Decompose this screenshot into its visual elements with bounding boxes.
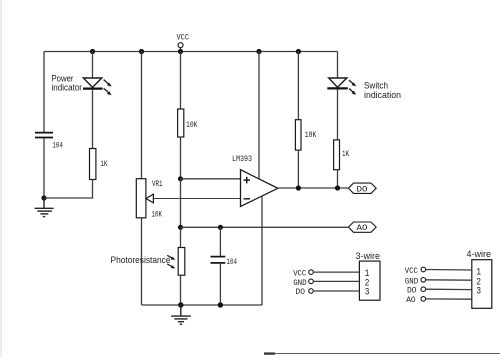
- terminal circle GND: [309, 279, 314, 284]
- junction: left ground node: [41, 195, 46, 200]
- wire: VCC to pin 1: [313, 271, 359, 273]
- svg-text:indication: indication: [364, 90, 401, 100]
- junction: capacitor C2 on AO line: [218, 225, 223, 230]
- ground (main): [171, 305, 191, 324]
- port flag DO: [348, 183, 376, 194]
- photoresistor LDR: [167, 248, 185, 276]
- junction: AO node: [178, 225, 183, 230]
- svg-text:3: 3: [476, 287, 481, 298]
- svg-text:104: 104: [52, 140, 63, 150]
- wire: R1 to left ground node: [44, 180, 93, 199]
- resistor R4 1K: [334, 140, 340, 170]
- wire: bottom ground rail: [142, 304, 263, 306]
- wire: R2 to non-inverting node: [180, 137, 182, 179]
- wire: left vertical branch upper (to cap C1): [43, 52, 45, 132]
- terminal circle VCC: [421, 267, 426, 272]
- svg-text:1K: 1K: [342, 150, 349, 159]
- svg-text:GND: GND: [405, 278, 419, 287]
- svg-text:4-wire: 4-wire: [467, 249, 492, 260]
- wire: switch branch from rail corner down to LED D2: [337, 52, 339, 79]
- junction: R4 on DO line: [335, 185, 340, 190]
- junction: power branch on VCC rail: [90, 49, 95, 54]
- LED D1 power indicator: [83, 78, 112, 95]
- wire: DO to pin 3: [426, 288, 472, 290]
- svg-text:AO: AO: [357, 224, 368, 233]
- wire: power branch from rail to LED D1: [92, 52, 94, 79]
- svg-text:VCC: VCC: [293, 269, 306, 278]
- junction: R3 on DO line: [296, 185, 301, 190]
- wire: op-amp V- supply to bottom rail: [261, 196, 263, 305]
- junction: V+ branch on VCC rail: [256, 49, 261, 54]
- op-amp U1 LM393: [241, 170, 278, 207]
- connector J1 3-wire: [293, 251, 380, 300]
- wire: LED D1 to resistor R1: [92, 90, 94, 149]
- wire: DO to pin 3: [313, 290, 359, 292]
- wire: VR1 bottom to bottom rail: [141, 218, 143, 305]
- power terminal VCC: [178, 43, 183, 52]
- ground (left): [35, 198, 54, 217]
- potentiometer VR1 10K: [136, 179, 153, 218]
- svg-text:indicator: indicator: [52, 83, 83, 93]
- pin label +: [244, 177, 251, 184]
- wire: GND to pin 2: [426, 279, 472, 281]
- port flag AO: [348, 222, 376, 233]
- wire: rail down to resistor R3: [297, 52, 299, 120]
- terminal circle DO: [309, 289, 314, 294]
- terminal circle AO: [421, 297, 426, 302]
- junction: VCC terminal on rail: [178, 49, 183, 54]
- svg-text:VR1: VR1: [152, 180, 163, 189]
- wire: AO node down to capacitor C2: [219, 227, 221, 256]
- wire: AO line from divider to flag: [181, 226, 348, 228]
- svg-text:DO: DO: [357, 185, 368, 194]
- svg-text:VCC: VCC: [405, 267, 418, 276]
- wire: AO to pin 4: [426, 298, 472, 300]
- wire: capacitor C2 to bottom rail: [219, 264, 221, 305]
- svg-text:3-wire: 3-wire: [356, 251, 381, 262]
- connector J2 4-wire: [405, 249, 492, 309]
- svg-text:10K: 10K: [152, 210, 163, 219]
- svg-text:10K: 10K: [186, 121, 198, 130]
- terminal circle GND: [421, 278, 426, 283]
- wire: rail down to potentiometer VR1: [141, 52, 143, 179]
- title block top border (cropped): [264, 352, 500, 354]
- junction: pull-up branch on VCC rail: [296, 49, 301, 54]
- resistor R2 10K: [178, 109, 184, 137]
- LED D2 switch indication: [327, 78, 356, 95]
- svg-text:DO: DO: [296, 288, 306, 297]
- wire: + input to op-amp: [181, 178, 241, 180]
- wire: AO node down to photoresistor: [180, 227, 182, 247]
- junction: C2 on bottom rail: [218, 302, 223, 307]
- svg-text:1K: 1K: [101, 160, 108, 169]
- terminal circle DO: [421, 287, 426, 292]
- wire: LED D2 to resistor R4: [337, 90, 339, 140]
- svg-text:10K: 10K: [305, 131, 317, 140]
- junction: ground node on bottom rail: [178, 302, 183, 307]
- junction: non-inverting input node: [178, 176, 183, 181]
- wire: op-amp output (DO line): [278, 187, 348, 189]
- svg-text:GND: GND: [293, 279, 307, 288]
- wire: R4 to DO line: [337, 170, 339, 188]
- capacitor C1 104: [35, 133, 53, 138]
- wire: inverting input from VR1 wiper: [153, 198, 241, 200]
- svg-text:DO: DO: [407, 287, 417, 296]
- wire: op-amp V+ supply from rail: [258, 52, 260, 180]
- svg-text:LM393: LM393: [232, 155, 252, 164]
- wire: divider node down to AO node: [180, 179, 182, 228]
- terminal circle VCC: [309, 270, 314, 275]
- junction: VR1 branch on VCC rail: [139, 49, 144, 54]
- capacitor C2 104: [211, 257, 226, 263]
- svg-text:AO: AO: [406, 296, 416, 305]
- page left edge border: [1, 0, 2, 357]
- svg-text:VCC: VCC: [177, 33, 190, 43]
- wire: GND to pin 2: [313, 280, 359, 282]
- svg-text:3: 3: [365, 288, 370, 299]
- wire: photoresistor to bottom rail: [180, 275, 182, 305]
- wire: top VCC rail: [44, 51, 338, 53]
- wire: VCC to pin 1: [426, 269, 472, 272]
- svg-text:Switch: Switch: [364, 80, 388, 90]
- wire: rail down to resistor R2: [180, 52, 182, 110]
- resistor R3 10K pull-up: [295, 120, 301, 150]
- wire: left vertical branch lower (cap C1 to ground): [43, 138, 45, 198]
- resistor R1 1K: [90, 149, 96, 180]
- pin label -: [244, 198, 251, 200]
- svg-text:104: 104: [227, 257, 238, 267]
- wire: R3 to DO line: [297, 150, 299, 188]
- svg-text:Photoresistance: Photoresistance: [111, 255, 171, 265]
